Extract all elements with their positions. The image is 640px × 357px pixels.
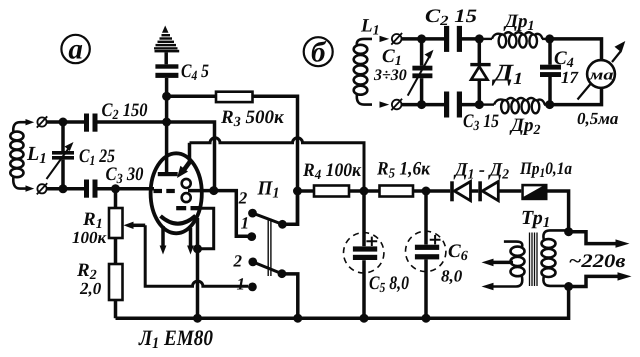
svg-text:Д1: Д1 [492,61,523,89]
capacitor C3 [84,180,98,198]
svg-text:Д1 - Д2: Д1 - Д2 [453,160,509,183]
wire bottom row to C3 [47,187,84,191]
svg-text:~220в: ~220в [569,251,627,272]
svg-text:Тр1: Тр1 [521,207,550,231]
wire bus to R4 [298,189,315,193]
L1 bottom arrow [380,101,390,107]
node C4b bottom [545,100,554,109]
heater tap arrow bottom [482,283,494,291]
capacitor C3b [444,92,462,118]
tube grid2 dashes [176,206,200,210]
label circle a [61,34,89,66]
tube grid1 dashes [154,189,175,193]
node C5 top [360,187,369,196]
switch P1 pole 2 [248,258,298,319]
svg-text:1: 1 [237,275,246,294]
wire C2 node to grid column [167,122,215,191]
node B+ bus left [293,187,302,196]
svg-text:2: 2 [233,252,243,271]
L1 bottom arrow [26,185,35,191]
svg-text:2: 2 [238,189,248,208]
wire C4 to anode (vertical x=166.6) [165,78,169,172]
svg-text:С2 15: С2 15 [425,6,478,29]
choke Dr1 [479,32,549,47]
svg-text:С1: С1 [382,46,402,69]
heater arrow left [160,226,167,255]
wire mains top jumper [569,232,616,244]
node C1b bottom [417,100,426,109]
node transformer top [564,227,573,236]
node C1 top [59,118,68,127]
capacitor C2b [444,26,462,52]
wire C2b to D1 node [462,37,479,41]
transformer Tr1 core [530,233,538,287]
resistor R5 [380,186,414,197]
wire wiper to contact 1 with hop [145,225,248,286]
antenna [154,26,179,53]
capacitor C2 [84,114,98,132]
choke Dr2 [479,98,549,113]
heater arrow right [187,228,194,255]
wire target line with hops [190,138,365,191]
capacitor C1 variable [47,122,75,189]
tube ray electrode arrow [177,160,191,178]
svg-text:б: б [311,37,327,69]
heater tap arrow middle [482,259,514,267]
svg-text:ма: ма [588,68,614,84]
capacitor C1b variable [408,39,434,105]
capacitor C4b [540,39,561,105]
coil L1 [10,122,27,188]
svg-text:Др2: Др2 [509,115,540,138]
L1 top arrow [380,36,390,42]
diode D1 [450,181,470,201]
wire C3 to tube grid [98,187,155,191]
wire R1 top lead [114,189,118,208]
svg-text:L1: L1 [360,16,380,39]
node C6 top [422,187,431,196]
node grid2 cathode joint [193,244,202,253]
wire ground bus [116,287,569,319]
transformer primary winding [542,230,569,286]
wire meter top [550,39,602,61]
svg-text:R4 100к: R4 100к [302,160,362,183]
mains arrow bottom [618,272,632,280]
svg-text:П1: П1 [257,178,280,202]
terminal bottom b [391,99,402,111]
node D1 top [475,34,484,43]
svg-text:R5 1,6к: R5 1,6к [376,159,431,182]
meter mA [578,41,626,100]
capacitor C6 electrolytic [406,191,446,318]
switch P1 pole 1 [247,191,297,241]
wire R3 right lead to bus corner [253,96,298,224]
svg-text:С2 150: С2 150 [102,100,148,123]
capacitor C4 [155,64,178,78]
svg-text:C4 5: C4 5 [181,61,209,84]
wire D2 to fuse [498,189,521,193]
svg-text:8,0: 8,0 [441,267,463,286]
node C1 bottom [59,184,68,193]
svg-text:С5 8,0: С5 8,0 [369,273,409,296]
node C4/R3 junction [162,92,171,101]
wire antenna stem [164,52,168,64]
terminal top b [391,33,402,45]
R1 wiper arrow [124,222,146,229]
svg-text:С3 15: С3 15 [463,111,499,134]
svg-text:L1: L1 [26,143,47,167]
switch P1 mechanical link [268,219,271,277]
wire fuse to mains corner [548,191,569,232]
resistor R4 [314,186,349,197]
capacitor C5 electrolytic [344,191,384,318]
wire R4 to R5 [349,189,380,193]
node C1b top [417,34,426,43]
node transformer bottom [564,282,573,291]
wire grid2 loop to cathode [198,208,214,249]
tube anode plate [158,172,178,176]
wire C2 to anode column [98,120,167,124]
svg-text:С6: С6 [448,241,468,264]
svg-text:17: 17 [561,68,580,87]
svg-text:Пр10,1а: Пр10,1а [519,158,572,180]
wire R3 left lead [167,95,216,99]
node C2 junction [162,118,171,127]
wire D1 D2 link [471,189,479,193]
wire ray electrode lead [188,143,192,161]
tube focus circles [182,179,191,202]
wire bottom row b [402,103,445,107]
mains arrow top [616,239,630,247]
node D1 bottom [475,100,484,109]
terminal bottom [37,183,47,194]
wire meter bottom [550,88,602,105]
svg-text:а: а [68,34,83,66]
wire top row to C2 [47,120,84,124]
svg-text:3÷30: 3÷30 [373,67,407,84]
transformer secondary winding [493,242,525,287]
resistor R1 potentiometer [109,208,123,238]
diode D2 [478,181,498,201]
terminal top [37,116,47,127]
fuse Pr1 [521,184,547,200]
svg-text:С3 30: С3 30 [106,164,144,187]
svg-text:Др1: Др1 [503,11,534,34]
svg-text:0,5ма: 0,5ма [577,109,619,128]
wire mains bottom jumper [569,276,618,286]
node ground C5 [360,314,369,323]
node C4b top [545,34,554,43]
tube envelope L1 EM80 [151,153,202,233]
wire R2 to ground bus [114,300,118,318]
diode D1 detector [470,39,490,105]
resistor R2 [109,264,123,300]
node ground C6 [422,314,431,323]
tube cathode arc [161,216,196,224]
coil L1 detector [354,39,372,105]
svg-text:1: 1 [241,214,250,233]
wire cathode to ground bus [196,218,200,318]
wire R5 to diodes [413,189,450,193]
label circle b [304,37,333,69]
node ground switch [293,314,302,323]
wire grid node to contact 1 [214,191,248,237]
node grid switch junction [209,186,218,195]
wire C3b to D1 node [462,103,479,107]
svg-text:Л1 ЕМ80: Л1 ЕМ80 [138,325,213,352]
wire R1 R2 link [114,238,118,264]
resistor R3 [216,92,253,102]
wire focus electrode lead to switch node [188,189,214,193]
svg-text:100к: 100к [72,228,107,247]
node R1 top [111,184,120,193]
node ground cathode [193,314,202,323]
L1 top arrow [26,119,35,125]
svg-text:R3 500к: R3 500к [220,107,285,130]
svg-text:2,0: 2,0 [79,279,102,298]
wire top row b [402,37,445,41]
